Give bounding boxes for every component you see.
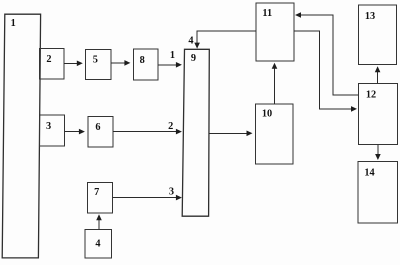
svg-text:2: 2 xyxy=(168,121,173,132)
svg-text:11: 11 xyxy=(262,8,272,19)
svg-text:7: 7 xyxy=(94,187,99,198)
svg-text:4: 4 xyxy=(188,35,193,46)
svg-text:13: 13 xyxy=(365,11,375,22)
svg-text:14: 14 xyxy=(364,168,374,179)
svg-text:10: 10 xyxy=(262,109,272,120)
svg-text:6: 6 xyxy=(95,122,100,133)
svg-text:4: 4 xyxy=(95,238,100,249)
svg-text:8: 8 xyxy=(140,55,145,66)
svg-text:12: 12 xyxy=(366,90,376,101)
svg-text:3: 3 xyxy=(46,121,51,132)
svg-text:2: 2 xyxy=(46,54,51,65)
svg-text:5: 5 xyxy=(93,55,98,66)
svg-text:1: 1 xyxy=(11,18,16,29)
svg-text:1: 1 xyxy=(170,50,175,61)
svg-text:9: 9 xyxy=(191,53,196,64)
svg-text:3: 3 xyxy=(169,187,174,198)
